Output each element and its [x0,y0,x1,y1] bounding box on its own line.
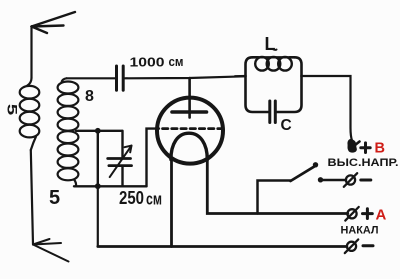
junction dot bottom [95,183,101,189]
parallel wire [97,131,99,187]
wire filament right leg / +A rail [207,158,347,214]
svg-text:5: 5 [49,187,60,209]
tap rail wire [76,130,122,132]
svg-text:А: А [376,207,387,224]
coil L2 grid coil [58,78,79,186]
wire bottom rail [98,245,347,248]
svg-text:ВЫС.НАПР.: ВЫС.НАПР. [328,157,399,169]
wire tank to bottom [97,186,99,246]
tube grid (dashed) [163,127,222,130]
capacitor C1 1000cm [117,66,124,90]
wire antenna lead [30,27,32,79]
tube V1 envelope [157,98,223,164]
label minus nakal [363,244,373,247]
junction dot top [95,128,101,134]
terminal minus vys [344,173,357,187]
inductor L3 loops [255,57,292,71]
terminal +B blob [355,142,360,146]
coil L1 antenna coil [20,78,40,150]
ground [33,239,69,262]
wire top left [67,77,116,79]
svg-text:5: 5 [4,104,20,116]
wire plate bus [125,76,245,78]
wire switch to terminal [321,179,347,181]
terminal +A [345,207,358,221]
svg-text:L: L [265,34,276,54]
antenna [32,12,76,33]
svg-text:250: 250 [119,188,144,208]
tank box L C [246,57,302,112]
label +A plus [363,209,373,219]
svg-text:НАКАЛ: НАКАЛ [341,225,379,237]
tube plate [172,110,207,114]
wire filament left leg [170,158,173,247]
wire plate lead [188,78,191,118]
switch S1 [258,162,324,213]
svg-text:C: C [281,117,292,134]
terminal minus nakal [345,240,358,254]
capacitor C2 250cm variable [108,131,132,187]
capacitor C3 [270,101,276,123]
wire tank to +B [302,76,353,141]
label +B plus [361,143,370,153]
svg-text:см: см [169,54,184,69]
bottom rail of tank [74,185,147,187]
svg-text:1000: 1000 [130,56,165,70]
svg-text:В: В [375,141,385,157]
wire grid lead [147,129,160,187]
svg-text:см: см [146,190,162,209]
tube filament [171,133,207,159]
label minus vys [361,179,371,182]
svg-text:8: 8 [85,88,94,105]
wire tank left [235,75,246,77]
wire ground lead [31,150,33,245]
